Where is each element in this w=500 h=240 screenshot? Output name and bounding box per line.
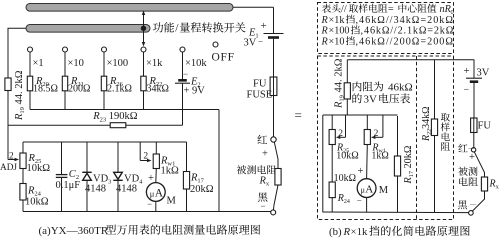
caption (b): [329, 226, 470, 238]
inner top wire (b): [323, 114, 398, 116]
svg-text:200Ω: 200Ω: [68, 84, 90, 95]
svg-text:3V: 3V: [244, 38, 257, 49]
svg-text:FU: FU: [253, 79, 267, 90]
label R23 190kΩ: [92, 111, 138, 123]
label VD3: [93, 174, 111, 186]
label FUSE: [247, 90, 273, 101]
wiper stub Rw1 (b): [371, 115, 383, 139]
label R25: [28, 153, 42, 165]
wire C2 top: [61, 142, 63, 175]
formula line 4: [321, 36, 454, 47]
wire battery b top: [473, 60, 475, 79]
junction dot on bar2: [141, 26, 146, 31]
wire R20 bottom: [29, 91, 31, 110]
label 内阻为 46kΩ: [353, 81, 413, 93]
resistor R19: [5, 78, 11, 91]
svg-text:R: R: [321, 36, 329, 47]
svg-text:−: −: [258, 37, 263, 47]
svg-text:2.1kΩ: 2.1kΩ: [107, 84, 132, 95]
wire R17b bottom: [397, 176, 399, 212]
resistor R23: [110, 123, 126, 128]
svg-text:10kΩ: 10kΩ: [336, 151, 358, 162]
wire ×10 stub: [64, 52, 66, 76]
contact ×1: [28, 47, 33, 52]
svg-text:−: −: [183, 69, 188, 79]
label 被测电阻 (b): [458, 167, 477, 187]
wire R17 bottom: [186, 189, 188, 212]
wire ×1k stub: [143, 52, 145, 76]
svg-text:×1k: ×1k: [329, 15, 346, 26]
wire Rw1b top: [366, 115, 368, 130]
label 1kΩ (b): [371, 151, 388, 162]
wire ×1 stub: [29, 52, 31, 76]
svg-text:R: R: [321, 26, 329, 37]
red terminal (b): [471, 148, 475, 152]
svg-text:2: 2: [374, 129, 379, 139]
label E2: [190, 77, 201, 89]
label C2: [69, 169, 79, 181]
label R24 10kΩ: [25, 197, 49, 208]
svg-text:A: A: [365, 184, 373, 196]
svg-text:M: M: [167, 196, 177, 207]
label 2 (R25 wiper): [9, 152, 14, 162]
wire R17b top: [397, 116, 399, 156]
wire R25b-R24b: [331, 145, 333, 183]
label 10kΩ (R24b): [334, 173, 356, 184]
contact ×10: [63, 47, 68, 52]
svg-text:,: ,: [361, 26, 364, 37]
label meter minus: [147, 199, 152, 209]
wire Rx to black terminal (b): [473, 191, 485, 211]
box left upper: [22, 142, 24, 153]
wire battery to fuse (b): [473, 82, 475, 118]
wire R23 left: [8, 124, 110, 126]
label +9V: [184, 86, 206, 97]
label E1 plus: [261, 20, 267, 32]
label 2.1kΩ: [107, 84, 132, 95]
svg-text:R2234kΩ: R2234kΩ: [421, 106, 433, 142]
label 3V (b): [477, 68, 490, 79]
label ×1: [33, 58, 44, 69]
resistor R22 (b): [431, 119, 437, 136]
resistor R17: [183, 172, 189, 190]
label plus (b meter): [358, 166, 364, 177]
box left bottom stub: [22, 200, 24, 212]
label 200Ω: [68, 84, 90, 95]
svg-text:×10: ×10: [329, 36, 345, 47]
label ×10k: [185, 58, 207, 69]
meter M (microammeter): [146, 183, 165, 202]
caption (a): [39, 225, 261, 237]
wire VD3 top: [86, 142, 88, 172]
label ×1k: [146, 58, 163, 69]
wire Rx to black terminal (a): [273, 185, 278, 210]
label R26: [109, 76, 124, 88]
label Rw1 1kΩ: [161, 166, 180, 177]
svg-text:10kΩ: 10kΩ: [25, 197, 49, 208]
svg-text:A: A: [155, 188, 164, 200]
resistor Rx (a): [275, 169, 281, 186]
label Rx (b): [489, 179, 500, 191]
resistor R25: [20, 153, 26, 169]
meter network box top: [23, 141, 187, 143]
label E1 minus: [258, 37, 263, 47]
wiper arrow into Rw1: [140, 159, 151, 162]
svg-text:,: ,: [356, 36, 359, 47]
resistor R21: [62, 76, 67, 91]
svg-text:−: −: [147, 199, 152, 209]
resistor R22: [141, 76, 146, 91]
svg-text:4148: 4148: [85, 184, 106, 195]
svg-text:=: =: [388, 4, 394, 15]
svg-text:×10: ×10: [68, 58, 84, 69]
svg-text:2: 2: [9, 152, 14, 162]
svg-text:,: ,: [356, 15, 359, 26]
wire R24b bottom: [331, 198, 333, 212]
contact ×100: [102, 47, 107, 52]
label R17 20kΩ (b): [403, 145, 415, 184]
label black minus (a): [261, 201, 266, 211]
svg-text:R23 190kΩ: R23 190kΩ: [92, 111, 138, 123]
formula line 1: [322, 4, 454, 16]
label R24 (b): [337, 193, 350, 205]
wire E1 to fuse: [273, 38, 275, 78]
label 红 (a): [257, 135, 267, 144]
formula line 3: [321, 25, 455, 36]
label 黑 (b): [458, 200, 477, 209]
svg-text:20kΩ: 20kΩ: [190, 184, 214, 195]
wire Rw1 to meter: [155, 169, 158, 183]
svg-text:R17 20kΩ: R17 20kΩ: [403, 145, 415, 184]
label R17: [190, 173, 205, 185]
label 34kΩ: [147, 84, 169, 95]
contact OFF: [213, 42, 218, 47]
svg-text:34kΩ: 34kΩ: [147, 84, 169, 95]
label ADJ: [0, 163, 17, 173]
potentiometer Rw1 (b): [364, 130, 370, 145]
label E2 minus: [183, 69, 188, 79]
wire meter bottom (b): [366, 198, 368, 213]
dashed divider (b): [416, 56, 418, 220]
label 被测电阻 (a): [237, 165, 276, 174]
label R19 44.2kΩ: [14, 70, 26, 121]
black terminal (b): [469, 211, 474, 216]
diode VD4: [113, 172, 122, 180]
bus wire (a): [30, 109, 219, 111]
battery 3V (b): [466, 78, 482, 82]
top wire (b): [347, 59, 474, 61]
wire C2 bottom: [61, 177, 63, 211]
wire right rail (a): [218, 110, 220, 212]
wire VD4 bottom: [117, 180, 119, 211]
svg-text:3V: 3V: [364, 94, 378, 106]
wire E2 to R23: [182, 83, 184, 125]
wiper arrow ADJ into R25: [8, 158, 19, 161]
red terminal (a): [271, 137, 276, 142]
label plus probe (b): [469, 152, 475, 163]
label minus (b meter): [357, 196, 362, 206]
wire R17 top: [186, 142, 188, 172]
label plus probe (a): [262, 149, 268, 160]
wire R23 right: [126, 124, 183, 126]
wire Rw1 wiper stub: [139, 142, 141, 161]
label R17 20kΩ: [190, 184, 214, 195]
label E1: [248, 28, 259, 40]
svg-text:46kΩ: 46kΩ: [388, 82, 413, 94]
label M: [167, 196, 177, 207]
wire Rw1b to meter: [366, 145, 369, 179]
wire R22 bottom: [143, 91, 145, 110]
wire red to Rx (a): [274, 142, 278, 169]
bus wire (b): [323, 211, 469, 214]
svg-text:×1k: ×1k: [351, 226, 368, 238]
box left lower wire: [22, 169, 24, 184]
label R20: [35, 76, 49, 88]
svg-text:1kΩ: 1kΩ: [371, 151, 388, 162]
label μA: [150, 188, 164, 200]
svg-text:−: −: [464, 85, 470, 96]
resistor Rx (b): [481, 177, 487, 191]
wire meter bottom: [155, 201, 157, 211]
label minus (b battery): [464, 85, 470, 96]
resistor R17 (b): [394, 156, 400, 176]
label 2 (Rw1b): [374, 129, 379, 139]
diode VD3: [82, 172, 91, 180]
label R24: [27, 186, 42, 198]
svg-text:ADJ: ADJ: [0, 163, 17, 173]
wire R21 bottom: [64, 91, 66, 110]
wire red to Rx (b): [474, 152, 484, 177]
switch bar 2 (rotary switch common bar): [26, 25, 150, 33]
wire VD3 bottom: [86, 180, 88, 211]
label 2 (Rw1 wiper): [143, 152, 148, 162]
capacitor C2: [56, 175, 68, 178]
label 3V: [244, 38, 257, 49]
svg-text:46kΩ//34kΩ=20kΩ: 46kΩ//34kΩ=20kΩ: [359, 15, 454, 26]
wire R22 bottom (b): [434, 136, 436, 213]
svg-text:+ 9V: + 9V: [184, 86, 206, 97]
black terminal (a): [271, 210, 276, 215]
label ×10: [68, 58, 84, 69]
svg-text://: //: [341, 4, 347, 15]
svg-text:2: 2: [143, 152, 148, 162]
formula note box: [318, 3, 454, 54]
label M (b): [379, 185, 389, 196]
svg-text:M: M: [379, 185, 389, 196]
label μA (b): [361, 184, 374, 196]
svg-text:1kΩ: 1kΩ: [161, 166, 180, 177]
wire from bar2 to left rail: [8, 28, 26, 159]
svg-text:−: −: [357, 196, 362, 206]
label 18.5Ω: [33, 84, 58, 95]
wire R22 top (b): [434, 60, 436, 120]
wire R26 bottom: [103, 91, 105, 110]
svg-text:46kΩ//2.1kΩ=2kΩ: 46kΩ//2.1kΩ=2kΩ: [364, 26, 454, 37]
label VD4 4148: [116, 184, 137, 195]
label 0.1μF: [56, 180, 81, 191]
svg-text:10kΩ: 10kΩ: [334, 173, 356, 184]
formula line 2: [321, 15, 454, 26]
bottom bus (a): [23, 211, 271, 213]
svg-text:−: −: [261, 201, 266, 211]
label R22 34kΩ (b): [421, 106, 433, 142]
label FU (b): [478, 121, 492, 132]
svg-text:4148: 4148: [116, 184, 137, 195]
svg-text:×100: ×100: [107, 58, 129, 69]
svg-text:OFF: OFF: [212, 52, 235, 64]
resistor R26: [101, 76, 106, 91]
svg-text:+: +: [262, 149, 268, 160]
label R22: [149, 76, 163, 88]
equivalence sign =: [295, 108, 302, 123]
svg-text:46kΩ//200Ω=200Ω: 46kΩ//200Ω=200Ω: [359, 36, 454, 47]
fuse FU (a): [270, 77, 277, 96]
wire R25b top: [331, 115, 333, 130]
resistor R19 (b): [344, 83, 350, 99]
label R19 44.2kΩ (b): [334, 58, 346, 109]
wiper stub R25 (b): [336, 115, 346, 139]
label 红 (b): [458, 144, 475, 153]
label Rx (a): [259, 176, 270, 188]
svg-text:R: R: [321, 15, 329, 26]
fuse FU (b): [471, 118, 477, 133]
svg-text:2: 2: [338, 129, 343, 139]
wire fuse to red terminal (b): [473, 133, 475, 148]
resistor R20: [27, 76, 32, 91]
svg-text:+: +: [358, 166, 364, 177]
svg-text:0.1μF: 0.1μF: [56, 180, 81, 191]
svg-text:FUSE: FUSE: [247, 90, 273, 101]
label R25 (b): [336, 143, 349, 155]
contact ×10k: [180, 47, 185, 52]
resistor R24 (b): [329, 182, 335, 198]
contact ×1k: [141, 47, 146, 52]
label VD3 4148: [85, 184, 106, 195]
label Rw1: [160, 156, 175, 168]
svg-text:(b): (b): [329, 226, 342, 238]
svg-text:×1: ×1: [33, 58, 44, 69]
wire Rw1 top: [155, 142, 157, 154]
wire E1 top: [273, 7, 275, 33]
battery E1: [264, 34, 284, 38]
svg-text:3V: 3V: [477, 68, 490, 79]
label 2 (R25b): [338, 129, 343, 139]
svg-text:+: +: [464, 65, 470, 77]
dashed box (b) voltmeter: [318, 56, 454, 220]
wire R19b top: [346, 60, 348, 83]
wire ×100 stub: [103, 52, 105, 76]
svg-text:+: +: [261, 20, 267, 32]
label FU (a): [253, 79, 267, 90]
svg-text:×100: ×100: [329, 26, 350, 37]
svg-text:R: R: [343, 226, 351, 238]
svg-text:×10k: ×10k: [185, 58, 207, 69]
wire VD4 top: [117, 142, 119, 172]
label 的 3V 电压表: [352, 93, 410, 105]
resistor R25 (b): [329, 130, 335, 145]
label 取样电阻: [441, 113, 450, 151]
label Rw1 (b): [371, 143, 385, 155]
label meter plus: [148, 173, 154, 184]
left rail (b): [322, 115, 324, 212]
label VD4: [124, 174, 143, 186]
label 黑 (a): [258, 192, 268, 201]
svg-text:10kΩ: 10kΩ: [27, 163, 51, 174]
label R25 10kΩ: [27, 163, 51, 174]
svg-text:=: =: [295, 108, 302, 123]
wire ×10k stub: [182, 52, 184, 80]
switch bar 1 (rotary switch common bar): [26, 4, 233, 12]
svg-text:18.5Ω: 18.5Ω: [33, 84, 58, 95]
label R21: [70, 76, 84, 88]
svg-text:×1k: ×1k: [146, 58, 163, 69]
battery E2: [175, 80, 190, 83]
label ×100: [107, 58, 129, 69]
label 10kΩ (R25b): [336, 151, 358, 162]
svg-text:FU: FU: [478, 121, 492, 132]
svg-text:(a)YX—360TR: (a)YX—360TR: [39, 225, 109, 237]
svg-text:+: +: [469, 152, 475, 163]
meter M (b): [357, 179, 376, 198]
label plus (b battery): [464, 65, 470, 77]
resistor R24: [20, 184, 26, 201]
wire fuse to red terminal: [273, 96, 275, 137]
wiper arrow (selector): [142, 11, 145, 47]
wire R19b bottom: [346, 99, 348, 115]
wire from bar1 to E1 branch: [233, 6, 274, 8]
label 功能/量程转换开关: [153, 22, 246, 34]
label OFF: [212, 52, 235, 64]
svg-text:—: —: [469, 202, 477, 208]
potentiometer Rw1: [153, 154, 159, 169]
